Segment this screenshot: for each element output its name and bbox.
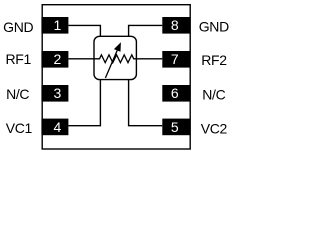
pin 5 [162,119,190,136]
pin 1 [41,17,68,34]
svg-text:3: 3 [54,85,62,101]
pin 7 [162,51,190,68]
pin 6 [162,85,190,102]
pin 3 [41,85,68,102]
svg-text:VC1: VC1 [6,120,33,136]
svg-text:N/C: N/C [202,87,225,103]
package body outline [42,5,190,149]
resistor zigzag [94,55,136,63]
wire pin5 VC2 to attenuator bottom-right riser [129,80,163,126]
svg-text:1: 1 [54,17,62,33]
pin 2 [41,51,68,68]
pin 4 [41,119,68,136]
wire pin4 VC1 to attenuator bottom-left riser [68,80,100,126]
svg-text:RF2: RF2 [201,52,227,68]
pin 8 [162,17,190,34]
svg-text:2: 2 [54,51,62,67]
svg-text:4: 4 [54,119,62,135]
wire pin2 RF1 to attenuator left [68,58,94,60]
attenuator U1 rounded box [94,36,136,79]
svg-text:GND: GND [3,19,33,35]
svg-text:N/C: N/C [6,86,29,102]
variable attenuator arrow [105,42,121,78]
svg-text:8: 8 [171,17,179,33]
svg-text:7: 7 [171,51,179,67]
wire pin7 RF2 to attenuator right [136,58,162,60]
svg-text:VC2: VC2 [201,121,228,137]
svg-text:GND: GND [199,18,229,34]
wire pin8 GND to attenuator top-right riser [129,25,163,36]
wire pin1 GND to attenuator top-left riser [68,25,100,36]
svg-text:5: 5 [171,119,179,135]
svg-text:6: 6 [171,85,179,101]
svg-text:RF1: RF1 [5,51,31,67]
